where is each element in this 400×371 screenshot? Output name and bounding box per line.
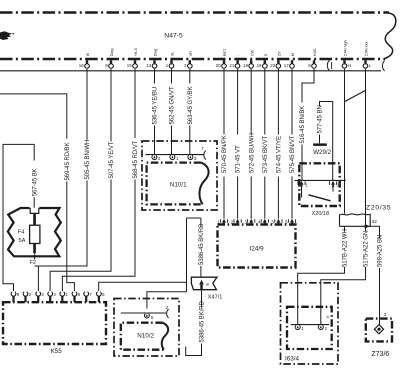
svg-text:5386-45 BK/RD: 5386-45 BK/RD bbox=[199, 223, 205, 265]
svg-text:N10/1: N10/1 bbox=[170, 181, 187, 188]
intermediate connector X47/1 flag symbol bbox=[191, 277, 217, 290]
K55 pin 4 bbox=[48, 292, 57, 302]
svg-text:X47/1: X47/1 bbox=[208, 294, 223, 300]
svg-text:572-45 BU/WH: 572-45 BU/WH bbox=[249, 133, 255, 173]
wire 572-45 BU/WH upper segment bbox=[250, 69, 252, 135]
I24/9 pin 2 bbox=[231, 219, 241, 225]
svg-text:567-45 BK: 567-45 BK bbox=[32, 168, 38, 196]
N10/2 connector line bbox=[121, 312, 167, 314]
svg-text:Diag: Diag bbox=[110, 49, 114, 57]
svg-text:571-45 VT: 571-45 VT bbox=[236, 145, 242, 173]
wire 569-45 RD/BK lower segment to K55 pin 6 bbox=[67, 182, 75, 292]
wire 5175-A22 GN upper segment bbox=[365, 226, 367, 231]
pin H of N47-5 (signal CAN high) bbox=[342, 40, 351, 68]
svg-text:H: H bbox=[348, 63, 351, 68]
svg-text:598-A25 BN: 598-A25 BN bbox=[378, 235, 384, 267]
svg-text:574-45 VT/YE: 574-45 VT/YE bbox=[277, 136, 283, 173]
wire 573-45 BK/VT upper segment bbox=[264, 69, 266, 135]
module I63/4 outer box bbox=[281, 283, 339, 364]
wire 5386-45 BK/RD left leg bbox=[186, 218, 188, 292]
wire 516-45 BN/BK lower segment into X20/18 pin 1 bbox=[301, 145, 303, 181]
svg-text:+B.S: +B.S bbox=[134, 48, 138, 57]
wire 562-45 GN/VT lower segment into N10/1 pin 1 bbox=[171, 126, 173, 155]
svg-text:I63/4: I63/4 bbox=[285, 356, 300, 363]
svg-text:573-45 BK/VT: 573-45 BK/VT bbox=[263, 136, 269, 173]
wire 536-45 YE/BU lower segment into N10/1 pin 2 bbox=[154, 126, 156, 155]
relay module K55 box bbox=[3, 302, 106, 344]
wire 571-45 VT upper segment bbox=[237, 69, 239, 135]
junction dot at Z20/35 output bbox=[364, 225, 367, 228]
svg-text:575-45 BN/VT: 575-45 BN/VT bbox=[290, 135, 296, 173]
wire 505-45 BN/WH from pin 16 bbox=[86, 69, 88, 140]
I24/9 pin 5 bbox=[272, 219, 282, 225]
connector sleeve Z20/35 (wavy-top box) bbox=[340, 214, 371, 226]
wire 574-45 VT/YE lower segment into I24/9 bbox=[277, 177, 279, 219]
wire branch down to K55 pin 3 bbox=[37, 266, 39, 291]
solder point Z73/6 box bbox=[366, 319, 392, 342]
svg-text:RET: RET bbox=[223, 48, 227, 56]
N10/2 inner box with torn edge bbox=[121, 323, 164, 350]
svg-text:M: M bbox=[291, 53, 295, 56]
svg-text:516-45 BN/BK: 516-45 BN/BK bbox=[300, 106, 306, 144]
svg-text:536-45 YE/BU: 536-45 YE/BU bbox=[153, 87, 159, 125]
svg-text:Dwg: Dwg bbox=[154, 49, 158, 56]
svg-text:W: W bbox=[86, 52, 90, 56]
svg-text:3: 3 bbox=[384, 312, 387, 318]
wire 517B-A22 WH upper segment bbox=[344, 226, 346, 231]
pin 8 of N47-5 (signal HAS) bbox=[308, 48, 317, 68]
wire 572-45 BU/WH lower segment into I24/9 bbox=[250, 177, 252, 219]
N10/2 connector break mark bbox=[167, 309, 169, 318]
wire 563-45 GY/BK lower segment into N10/1 pin 3 bbox=[189, 126, 191, 155]
pin L of N47-5 (signal CAN low) bbox=[363, 41, 372, 68]
pin 9 of N47-5 (signal Diag) bbox=[105, 49, 114, 69]
svg-text:F2: F2 bbox=[30, 260, 36, 266]
svg-text:F4: F4 bbox=[18, 229, 26, 235]
svg-text:8: 8 bbox=[206, 282, 209, 287]
module I24/9 box bbox=[218, 225, 296, 268]
twisted pair mark of CAN wires bbox=[345, 90, 366, 101]
module N47-5 torn right edge bbox=[384, 13, 396, 59]
connector break mark between pin 8 and CAN pins bbox=[327, 60, 329, 70]
wire 567-45 BK from K55 pin 8 over fuse box bbox=[33, 197, 35, 208]
sheet edge mark bbox=[0, 31, 12, 40]
svg-text:18: 18 bbox=[243, 63, 248, 68]
svg-text:13: 13 bbox=[146, 63, 151, 68]
svg-text:568-45 RD/VT: 568-45 RD/VT bbox=[133, 140, 139, 178]
svg-text:517B-A22 WH: 517B-A22 WH bbox=[343, 229, 349, 267]
fuse F4 element bbox=[33, 213, 36, 225]
X20/18 bridge contact bbox=[302, 187, 334, 197]
svg-text:5175-A22 GN: 5175-A22 GN bbox=[364, 231, 370, 267]
svg-text:CW: CW bbox=[250, 50, 254, 57]
svg-text:W29/2: W29/2 bbox=[313, 149, 331, 156]
wire 598-A25 BN lower segment into Z73/6 bbox=[379, 268, 381, 325]
connector break mark at right end bbox=[383, 61, 385, 71]
X20/18 pin 1 bbox=[298, 181, 308, 188]
wire CAN high from pin H to Z20/35 bbox=[344, 69, 346, 214]
K55 pin 3 bbox=[36, 292, 45, 302]
svg-text:HAS: HAS bbox=[313, 48, 317, 56]
svg-text:17: 17 bbox=[284, 63, 289, 68]
svg-text:N10/2: N10/2 bbox=[137, 332, 154, 339]
wire 568-45 RD/VT from pin 15 bbox=[134, 69, 136, 138]
I63/4 connector line bbox=[291, 324, 329, 326]
svg-text:Z20/35: Z20/35 bbox=[366, 204, 391, 211]
control module N47-5 top border (dash-dot) bbox=[0, 11, 389, 13]
I24/9 pin 6 bbox=[285, 219, 295, 225]
K55 pin 7 bbox=[84, 292, 93, 302]
fuse box torn outline bbox=[8, 208, 61, 256]
svg-text:32: 32 bbox=[372, 219, 378, 225]
pin 15 of N47-5 (signal +B.S) bbox=[127, 48, 138, 69]
svg-text:563-45 GY/BK: 563-45 GY/BK bbox=[188, 86, 194, 124]
K55 pin 5 bbox=[96, 292, 105, 302]
I24/9 pin 1 bbox=[217, 219, 227, 225]
wire from fuse terminal 2 down bbox=[34, 253, 36, 266]
pin 18 of N47-5 (signal CW) bbox=[243, 50, 254, 69]
control module N10/1 outer box bbox=[142, 141, 217, 210]
connector base line under N47-5 bbox=[0, 70, 381, 72]
module N47-5 connector border (dash-dot) bbox=[0, 58, 385, 60]
X20/18 pin 2 bbox=[329, 181, 339, 188]
pin 13 of N47-5 (signal Dwg) bbox=[146, 49, 157, 68]
svg-text:505-45 BN/WH: 505-45 BN/WH bbox=[85, 140, 91, 180]
svg-text:5386-45 BK/RD: 5386-45 BK/RD bbox=[200, 300, 206, 342]
I63/4 pin 1 bbox=[295, 325, 304, 331]
N10/1 pin 2 bbox=[152, 155, 161, 161]
pin 19 of N47-5 (signal S) bbox=[257, 53, 268, 68]
wire 5386-45 BK/RD right leg upper segment bbox=[200, 218, 202, 227]
svg-text:577-45 BN: 577-45 BN bbox=[318, 105, 324, 133]
svg-text:Z73/6: Z73/6 bbox=[371, 351, 389, 358]
wire 5175-A22 GN into I63/4 pin 2 bbox=[321, 267, 366, 324]
svg-text:507-45 YE/VT: 507-45 YE/VT bbox=[109, 141, 115, 178]
svg-text:15: 15 bbox=[127, 63, 132, 68]
svg-text:570-45 BN/PK: 570-45 BN/PK bbox=[222, 135, 228, 173]
svg-text:VR: VR bbox=[189, 51, 193, 56]
coupler X20/18 box bbox=[299, 163, 339, 206]
wire 536-45 YE/BU from pin 13 bbox=[154, 69, 156, 84]
pin 16 of N47-5 (signal W) bbox=[79, 52, 90, 68]
wire 568-45 RD/VT lower segment to K55 pin 4 bbox=[62, 180, 135, 292]
wire 571-45 VT lower segment into I24/9 bbox=[237, 177, 239, 219]
svg-text:21: 21 bbox=[229, 63, 234, 68]
N10/1 connector break mark bbox=[204, 151, 206, 160]
pin 2 of N47-5 (signal VR) bbox=[184, 51, 193, 69]
wire 563-45 GY/BK from pin 2 bbox=[189, 69, 191, 84]
Z73/6 splice diamond bbox=[374, 325, 383, 334]
wire 577-45 BN from X20/18 pin 2 routed over the box bbox=[320, 102, 333, 181]
pin 21 of N47-5 (signal -) bbox=[229, 54, 240, 68]
wire 516-45 BN/BK from pin 8 bbox=[302, 69, 314, 103]
pin 23 of N47-5 (signal ZV) bbox=[270, 51, 281, 68]
X47/1 contact arrow pin 8 bbox=[199, 280, 204, 285]
I63/4 pin 2 bbox=[318, 325, 327, 331]
svg-text:VL: VL bbox=[171, 52, 175, 57]
wire 575-45 BN/VT lower segment into I24/9 bbox=[291, 177, 293, 219]
N10/1 inner box with torn edge bbox=[147, 163, 203, 205]
K55 pin 8 bbox=[11, 292, 20, 302]
wire branch to N10/2 pin 5 bbox=[147, 292, 187, 309]
wire 570-45 BN/PK lower segment into I24/9 bbox=[223, 177, 225, 219]
K55 pin 2 bbox=[23, 292, 32, 302]
X20/18 connector line bbox=[295, 179, 346, 181]
wire 562-45 GN/VT from pin 1 bbox=[171, 69, 173, 84]
ground point W29/2 bar bbox=[313, 143, 327, 146]
wire 577-45 BN stem to ground bbox=[319, 135, 321, 144]
N10/1 pin 1 bbox=[170, 155, 179, 161]
I24/9 pin 4 bbox=[258, 219, 268, 225]
wire 505-45 BN/WH lower segment to fuse F4 terminal 2 and K55 pin 3 bbox=[35, 181, 87, 267]
I63/4 inner box bbox=[287, 307, 332, 349]
wire 569-45 RD/BK from left sheet edge bbox=[0, 94, 67, 139]
pin 20 of N47-5 (signal RET) bbox=[216, 48, 227, 68]
control module N10/2 outer box bbox=[114, 299, 179, 357]
N10/1 connector line bbox=[146, 154, 204, 156]
wire 507-45 YE/VT from pin 9 bbox=[110, 69, 112, 142]
wire 5386-45 BK/RD bottom run bbox=[186, 344, 202, 356]
svg-text:K55: K55 bbox=[51, 348, 63, 355]
fuse F4 top terminal bbox=[30, 208, 39, 214]
wire 573-45 BK/VT lower segment into I24/9 bbox=[264, 177, 266, 219]
wire 5386-45 BK/RD loop top bbox=[187, 217, 201, 219]
svg-text:20: 20 bbox=[216, 63, 221, 68]
svg-text:X20/18: X20/18 bbox=[312, 211, 329, 217]
wire 517B-A22 WH into I63/4 pin 1 bbox=[298, 267, 345, 324]
N10/2 pin 5 bbox=[144, 314, 153, 320]
svg-text:ZV: ZV bbox=[278, 51, 282, 56]
svg-text:N47-5: N47-5 bbox=[164, 32, 183, 39]
wire CAN low from pin L to Z20/35 bbox=[365, 69, 367, 226]
svg-text:23: 23 bbox=[270, 63, 275, 68]
I24/9 pin 3 bbox=[244, 219, 254, 225]
K55 pin 6 bbox=[72, 292, 81, 302]
svg-text:5A: 5A bbox=[18, 238, 25, 244]
wire 507-45 YE/VT lower segment to K55 pin 1 bbox=[50, 180, 111, 292]
svg-text:562-45 GN/VT: 562-45 GN/VT bbox=[170, 86, 176, 124]
N10/1 pin 3 bbox=[188, 155, 197, 161]
wire 5386-45 BK/RD through X47/1 bbox=[200, 266, 203, 307]
svg-text:19: 19 bbox=[257, 63, 262, 68]
wire 575-45 BN/VT upper segment bbox=[291, 69, 293, 135]
pin 1 of N47-5 (signal VL) bbox=[166, 52, 175, 69]
wire 570-45 BN/PK upper segment bbox=[223, 69, 225, 135]
wire branch to K55 pin 7 bbox=[99, 282, 187, 291]
svg-text:16: 16 bbox=[79, 63, 84, 68]
svg-text:I24/9: I24/9 bbox=[250, 245, 265, 252]
svg-text:CAN low: CAN low bbox=[365, 41, 369, 56]
pin 17 of N47-5 (signal M) bbox=[284, 53, 295, 68]
svg-text:569-45 RD/BK: 569-45 RD/BK bbox=[65, 142, 71, 180]
K55 pin 1 bbox=[60, 292, 69, 302]
wire 574-45 VT/YE upper segment bbox=[277, 69, 279, 135]
wire 598-A25 BN branch to Z73/6 bbox=[366, 226, 380, 238]
svg-text:CAN high: CAN high bbox=[344, 40, 348, 56]
